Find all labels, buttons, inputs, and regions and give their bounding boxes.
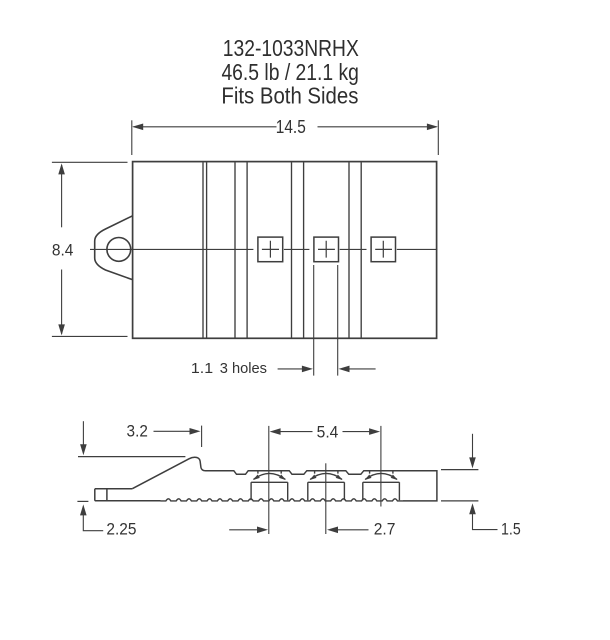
dim 1.1 extension line right <box>337 265 339 376</box>
counterweight body outline (top view) <box>133 162 437 339</box>
dim 5.4 arrow right <box>343 431 371 433</box>
profile left end cap <box>95 489 161 501</box>
dim 14.5 extension line left <box>131 120 133 155</box>
body groove line d2 <box>360 162 362 337</box>
dim 2.7 arrow left <box>229 529 258 531</box>
svg-text:132-1033NRHX: 132-1033NRHX <box>223 35 359 61</box>
dimple bump B3 <box>363 471 400 500</box>
svg-text:8.4: 8.4 <box>52 240 74 259</box>
dim 8.4 arrow up <box>61 165 63 227</box>
dim 14.5 arrow right <box>318 126 437 128</box>
dim 5.4 extension line left (bump1 center) <box>268 426 270 534</box>
dim 1.5 arrow up with tail <box>473 513 498 530</box>
dim 8.4 extension line top <box>52 161 128 163</box>
profile top: slant, peak and stepped surface with dips <box>132 457 437 501</box>
dimple bump B2 <box>308 471 345 500</box>
dim 14.5 extension line right <box>437 120 439 155</box>
dim 1.1 extension line left <box>313 265 315 376</box>
dim 5.4 extension line right (bump3 center) <box>380 426 382 507</box>
dim 2.25 arrow up with tail <box>83 514 103 530</box>
svg-text:2.7: 2.7 <box>374 519 396 538</box>
svg-text:1.5: 1.5 <box>501 519 521 538</box>
mounting tab <box>95 216 133 280</box>
dim 1.5 reference line top <box>441 469 478 471</box>
body groove line c1 <box>291 162 293 337</box>
dim 14.5 arrow left <box>134 126 277 128</box>
unlabeled height arrow down <box>82 421 84 445</box>
svg-text:3 holes: 3 holes <box>220 360 268 377</box>
svg-text:14.5: 14.5 <box>276 117 306 137</box>
square hole H3 <box>371 237 395 262</box>
top surface reference line (left) <box>78 456 185 458</box>
body groove line d1 <box>348 162 350 337</box>
svg-text:5.4: 5.4 <box>317 423 339 442</box>
dim 3.2 extension line <box>201 426 203 447</box>
svg-text:46.5 lb / 21.1 kg: 46.5 lb / 21.1 kg <box>221 59 359 85</box>
tab hole <box>107 238 131 262</box>
hole H3 crosshair <box>375 241 392 258</box>
dim 5.4 arrow left <box>280 431 313 433</box>
body groove line a2 <box>206 162 208 337</box>
dim 1.5 arrow down <box>472 434 474 458</box>
serrated bottom edge <box>161 499 404 501</box>
dim 2.25 reference tick <box>77 500 88 502</box>
body groove line b2 <box>246 162 248 337</box>
body groove line b1 <box>234 162 236 337</box>
body groove line c2 <box>303 162 305 337</box>
svg-text:3.2: 3.2 <box>127 421 148 440</box>
bump2 centerline <box>325 463 327 534</box>
centerline <box>90 248 437 250</box>
svg-text:2.25: 2.25 <box>106 520 136 539</box>
dim 1.1 arrow right <box>349 368 376 370</box>
dim 1.1 arrow left <box>278 368 304 370</box>
square hole H1 <box>258 237 283 262</box>
body groove line a1 <box>202 162 204 337</box>
square hole H2 <box>314 237 339 262</box>
hole H1 crosshair <box>262 241 279 258</box>
dim 1.5 reference line bottom <box>441 500 478 502</box>
dim 3.2 arrow <box>154 430 191 432</box>
svg-text:Fits Both Sides: Fits Both Sides <box>221 83 358 109</box>
dimple bump B1 <box>251 471 288 500</box>
svg-text:1.1: 1.1 <box>191 360 213 377</box>
dim 8.4 extension line bottom <box>52 335 128 337</box>
hole H2 crosshair <box>318 241 335 258</box>
dim 2.7 arrow right <box>337 529 369 531</box>
dim 8.4 arrow down <box>61 270 63 334</box>
